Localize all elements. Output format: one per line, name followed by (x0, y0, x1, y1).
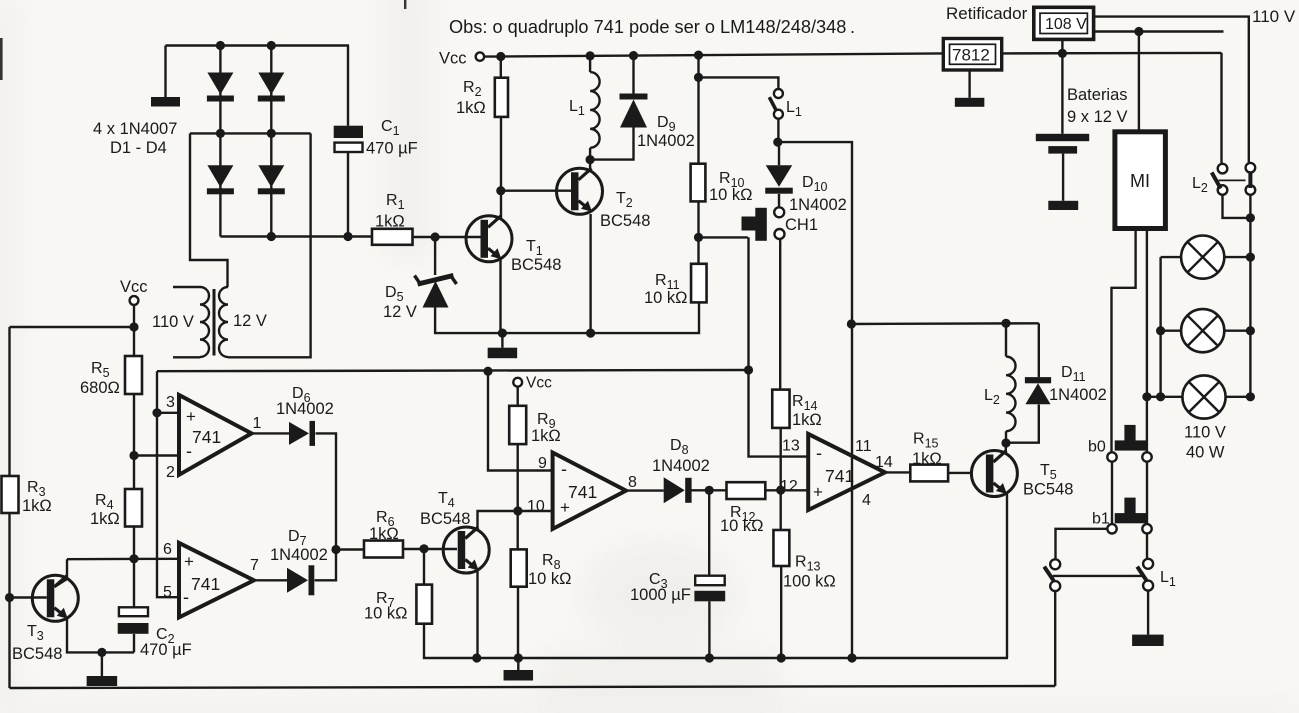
svg-text:2: 2 (166, 464, 175, 481)
svg-text:1: 1 (253, 415, 262, 432)
svg-text:741: 741 (825, 466, 854, 486)
svg-text:10 kΩ: 10 kΩ (709, 186, 753, 204)
svg-text:470 µF: 470 µF (140, 641, 192, 659)
svg-text:1kΩ: 1kΩ (912, 450, 942, 468)
svg-text:10 kΩ: 10 kΩ (528, 570, 572, 588)
svg-text:14: 14 (875, 454, 893, 471)
svg-text:b0: b0 (1088, 439, 1106, 456)
svg-text:1N4002: 1N4002 (637, 132, 695, 150)
svg-text:741: 741 (192, 427, 221, 447)
svg-text:BC548: BC548 (420, 510, 470, 528)
svg-text:b1: b1 (1092, 511, 1110, 528)
svg-text:8: 8 (628, 474, 637, 491)
svg-text:12 V: 12 V (233, 312, 267, 330)
svg-text:1kΩ: 1kΩ (531, 427, 561, 445)
svg-text:1N4002: 1N4002 (270, 546, 328, 564)
svg-text:6: 6 (163, 541, 172, 558)
svg-text:Baterias: Baterias (1067, 86, 1128, 104)
svg-text:MI: MI (1130, 171, 1150, 191)
svg-text:110 V: 110 V (152, 313, 194, 331)
svg-text:Vcc: Vcc (526, 375, 552, 392)
svg-text:Vcc: Vcc (120, 278, 148, 296)
svg-text:-: - (183, 587, 189, 607)
svg-text:BC548: BC548 (12, 645, 62, 663)
svg-text:BC548: BC548 (511, 256, 561, 274)
svg-text:1kΩ: 1kΩ (90, 510, 120, 528)
svg-text:12 V: 12 V (383, 303, 417, 321)
svg-text:7: 7 (250, 557, 259, 574)
svg-text:1kΩ: 1kΩ (456, 99, 486, 117)
svg-text:1N4002: 1N4002 (276, 400, 334, 418)
svg-text:1N4002: 1N4002 (789, 196, 847, 214)
svg-text:108 V: 108 V (1045, 16, 1087, 33)
svg-text:+: + (186, 407, 196, 426)
svg-text:1N4002: 1N4002 (1049, 386, 1107, 404)
svg-text:+: + (813, 483, 823, 502)
svg-text:3: 3 (166, 394, 175, 411)
svg-text:1kΩ: 1kΩ (375, 213, 405, 231)
svg-text:110 V: 110 V (1184, 424, 1226, 442)
svg-text:BC548: BC548 (600, 212, 650, 230)
svg-text:BC548: BC548 (1023, 481, 1073, 499)
svg-text:110 V: 110 V (1252, 7, 1296, 26)
svg-text:5: 5 (163, 584, 172, 601)
svg-text:CH1: CH1 (785, 216, 818, 234)
svg-text:Retificador: Retificador (946, 4, 1028, 23)
svg-text:Vcc: Vcc (439, 50, 467, 68)
svg-text:13: 13 (782, 438, 800, 455)
svg-text:11: 11 (855, 438, 872, 455)
svg-text:1000 µF: 1000 µF (630, 586, 691, 604)
svg-text:+: + (184, 552, 194, 571)
svg-text:680Ω: 680Ω (80, 379, 120, 397)
svg-text:40 W: 40 W (1186, 444, 1225, 462)
svg-text:4: 4 (862, 492, 871, 509)
svg-text:1N4002: 1N4002 (652, 457, 710, 475)
svg-text:-: - (816, 443, 822, 463)
svg-text:741: 741 (568, 482, 597, 502)
svg-text:741: 741 (191, 574, 220, 594)
svg-text:7812: 7812 (952, 46, 990, 65)
svg-text:12: 12 (780, 478, 798, 495)
svg-text:1kΩ: 1kΩ (792, 411, 822, 429)
svg-text:9 x 12 V: 9 x 12 V (1067, 108, 1128, 126)
svg-text:9: 9 (538, 455, 547, 472)
svg-text:10 kΩ: 10 kΩ (720, 517, 764, 535)
svg-text:1kΩ: 1kΩ (369, 525, 399, 543)
svg-text:10 kΩ: 10 kΩ (364, 605, 408, 623)
svg-text:D1 - D4: D1 - D4 (110, 139, 167, 157)
svg-text:10: 10 (527, 498, 545, 515)
svg-text:1kΩ: 1kΩ (22, 497, 52, 515)
svg-text:4 x 1N4007: 4 x 1N4007 (93, 120, 177, 138)
svg-text:-: - (561, 459, 567, 479)
svg-text:470 µF: 470 µF (366, 140, 418, 158)
svg-text:100 kΩ: 100 kΩ (783, 573, 836, 591)
svg-text:Obs: o quadruplo 741 pode ser: Obs: o quadruplo 741 pode ser o LM148/24… (449, 17, 855, 37)
svg-text:10 kΩ: 10 kΩ (644, 289, 688, 307)
